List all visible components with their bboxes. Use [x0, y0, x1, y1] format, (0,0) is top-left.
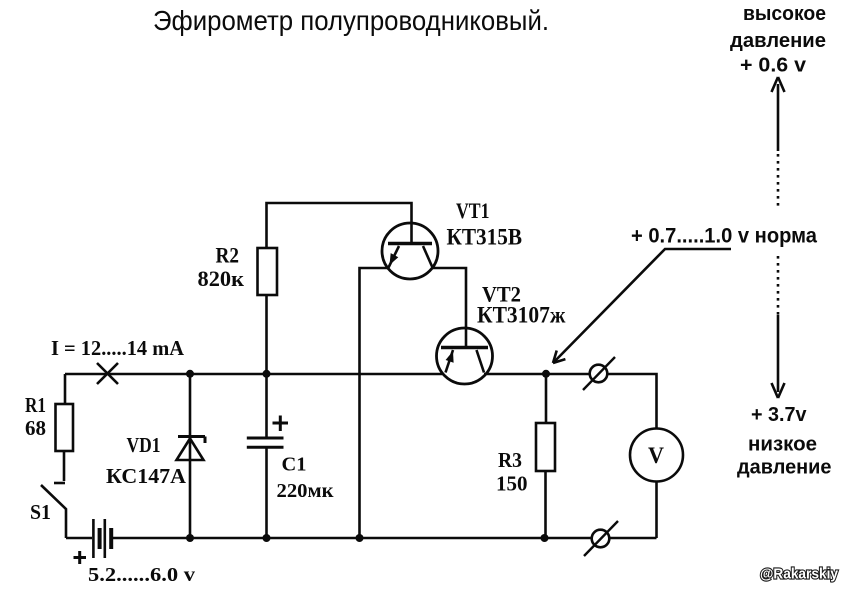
wire VT1 emitter down to ground rail: [360, 268, 389, 538]
svg-text:I = 12.....14 mA: I = 12.....14 mA: [51, 336, 185, 360]
svg-text:высокое: высокое: [743, 3, 826, 25]
svg-text:VD1: VD1: [127, 433, 161, 457]
label КТ3107ж: [477, 303, 566, 328]
label 5.2......6.0 v: [88, 564, 195, 586]
node VD1 bottom junction: [186, 534, 194, 542]
svg-text:R1: R1: [25, 393, 46, 417]
resistor R2: [258, 248, 278, 295]
wire output rail right: [484, 374, 657, 428]
svg-text:VT1: VT1: [456, 198, 490, 223]
svg-text:5.2......6.0 v: 5.2......6.0 v: [88, 564, 195, 586]
wire positive rail left: [65, 373, 446, 376]
label V voltmeter: [648, 443, 664, 468]
svg-text:S1: S1: [30, 500, 51, 524]
switch S1: [41, 485, 66, 538]
test point TP1 top: [583, 357, 615, 390]
zener diode VD1: [177, 374, 206, 538]
label VD1: [127, 433, 161, 457]
node R3 ground junction: [541, 534, 549, 542]
capacitor C1 plus sign: [273, 416, 289, 432]
label + 3.7v: [751, 404, 807, 426]
wire R3 bottom to ground rail: [544, 471, 547, 538]
arrow up high pressure: [772, 77, 785, 151]
wire VT1 collector to VT2 base: [433, 268, 467, 347]
svg-text:@Rakarskiy: @Rakarskiy: [760, 566, 839, 583]
label 220мк: [277, 480, 334, 502]
svg-text:+ 3.7v: + 3.7v: [751, 404, 807, 426]
battery GB1: [93, 519, 111, 558]
capacitor C1: [247, 374, 284, 538]
label R3: [498, 448, 522, 472]
wire R2 top loop to VT1 base: [267, 203, 412, 248]
arrow down low pressure: [772, 315, 785, 398]
node C1 bottom junction: [263, 534, 271, 542]
node C1 top junction: [263, 370, 271, 378]
node VT1 emitter ground junction: [356, 534, 364, 542]
voltmeter PV1: [630, 429, 683, 539]
label 68: [25, 416, 46, 440]
wire ground rail bottom: [66, 537, 657, 540]
svg-text:820к: 820к: [198, 266, 245, 291]
label VT1: [456, 198, 490, 223]
transistor VT1: [382, 222, 438, 279]
battery plus sign: [74, 551, 87, 564]
resistor R3: [536, 423, 555, 471]
resistor R1: [56, 404, 74, 451]
wire left branch down to R1: [64, 374, 67, 404]
label R2: [216, 243, 240, 268]
dotted line upper: [777, 154, 780, 210]
svg-text:+ 0.7.....1.0 v норма: + 0.7.....1.0 v норма: [631, 225, 817, 248]
label давление bottom: [737, 457, 832, 479]
title: [153, 5, 549, 36]
label 150: [496, 472, 528, 496]
wire R1 bottom to switch contact: [54, 451, 65, 483]
transistor VT2: [437, 328, 493, 384]
node output junction: [542, 370, 550, 378]
svg-text:КТ3107ж: КТ3107ж: [477, 303, 566, 328]
annotation pointer to output node: [553, 249, 731, 363]
current break mark X: [97, 363, 118, 384]
label + 0.7.....1.0 v норма: [631, 225, 817, 248]
svg-text:давление: давление: [730, 30, 826, 52]
label S1: [30, 500, 51, 524]
svg-text:150: 150: [496, 472, 528, 496]
svg-text:68: 68: [25, 416, 46, 440]
svg-text:V: V: [648, 443, 664, 468]
wire output node down to R3: [545, 374, 548, 423]
label КТ315В: [447, 225, 523, 250]
svg-text:R3: R3: [498, 448, 522, 472]
label высокое: [743, 3, 826, 25]
svg-text:КТ315В: КТ315В: [447, 225, 523, 250]
label КС147А: [106, 464, 187, 488]
svg-text:Эфирометр полупроводниковый.: Эфирометр полупроводниковый.: [153, 5, 549, 36]
svg-text:R2: R2: [216, 243, 240, 268]
label давление top: [730, 30, 826, 52]
svg-text:КС147А: КС147А: [106, 464, 187, 488]
svg-text:+ 0.6 v: + 0.6 v: [740, 55, 807, 77]
dotted line lower: [777, 256, 780, 315]
svg-text:давление: давление: [737, 457, 832, 479]
svg-text:C1: C1: [282, 454, 307, 476]
label I = 12.....14 mA: [51, 336, 185, 360]
label + 0.6 v: [740, 55, 807, 77]
svg-text:низкое: низкое: [748, 434, 817, 456]
label VT2: [482, 282, 521, 307]
wire R2 bottom to rail: [265, 295, 268, 374]
svg-text:220мк: 220мк: [277, 480, 334, 502]
node VD1 top junction: [186, 370, 194, 378]
test point TP2 bottom: [584, 521, 618, 556]
label C1: [282, 454, 307, 476]
label 820к: [198, 266, 245, 291]
label низкое: [748, 434, 817, 456]
label R1: [25, 393, 46, 417]
watermark @Rakarskiy: [760, 566, 839, 583]
